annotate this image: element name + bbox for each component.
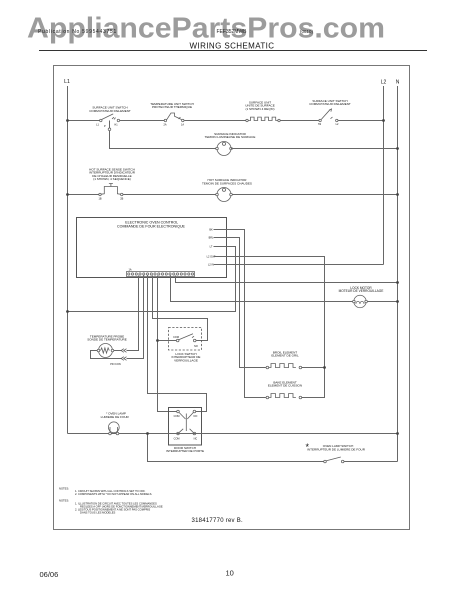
- svg-text:1A: 1A: [181, 124, 184, 127]
- svg-text:2B: 2B: [120, 198, 123, 201]
- svg-text:10: 10: [226, 569, 234, 578]
- svg-text:COMMUTATEUR D'ELEMENT: COMMUTATEUR D'ELEMENT: [309, 102, 351, 106]
- svg-text:COM: COM: [173, 336, 179, 339]
- svg-text:ELEMENT DE CUISSON: ELEMENT DE CUISSON: [268, 384, 302, 388]
- svg-text:PIN CON: PIN CON: [110, 363, 121, 366]
- svg-text:1A: 1A: [128, 269, 131, 272]
- svg-text:L1: L1: [64, 79, 70, 85]
- svg-text:LUMIERE DE FOUR: LUMIERE DE FOUR: [101, 415, 130, 419]
- svg-text:COM: COM: [174, 437, 180, 440]
- svg-text:COMMANDE DE FOUR ELECTRONIQUE: COMMANDE DE FOUR ELECTRONIQUE: [117, 225, 185, 229]
- svg-text:(1 SHOWN 4 REQ'D): (1 SHOWN 4 REQ'D): [245, 107, 274, 111]
- svg-text:DANS TOUS LES MODELES: DANS TOUS LES MODELES: [80, 511, 116, 515]
- svg-text:(0610): (0610): [300, 29, 314, 34]
- svg-text:TEMOIN DE SURFACES CHAUDES: TEMOIN DE SURFACES CHAUDES: [202, 181, 252, 185]
- svg-text:L2: L2: [381, 80, 387, 86]
- svg-text:COMMUTATEUR D'ELEMENT: COMMUTATEUR D'ELEMENT: [89, 109, 131, 113]
- svg-text:LT: LT: [210, 246, 213, 249]
- svg-text:L2 IN: L2 IN: [208, 264, 214, 267]
- svg-text:318417770 rev B.: 318417770 rev B.: [192, 518, 243, 524]
- svg-text:Publication No 5995443751: Publication No 5995443751: [38, 29, 117, 35]
- svg-text:SONDE DE TEMPERATURE: SONDE DE TEMPERATURE: [87, 338, 127, 342]
- svg-text:BRL: BRL: [209, 237, 214, 240]
- svg-text:BK: BK: [209, 229, 213, 232]
- svg-text:ELEMENT DE GRIL: ELEMENT DE GRIL: [271, 354, 299, 358]
- svg-text:MOTEUR DE VERROUILLAGE: MOTEUR DE VERROUILLAGE: [339, 289, 384, 293]
- svg-text:N: N: [396, 80, 400, 86]
- svg-text:NC: NC: [194, 437, 198, 440]
- svg-text:NOTES:: NOTES:: [59, 487, 69, 491]
- svg-text:INTERRUPTER DE PORTE: INTERRUPTER DE PORTE: [166, 449, 204, 453]
- svg-text:WIRING SCHEMATIC: WIRING SCHEMATIC: [190, 42, 275, 51]
- svg-text:PROTECTEUR THERMIQUE: PROTECTEUR THERMIQUE: [152, 105, 192, 109]
- svg-text:FEF352MWB: FEF352MWB: [217, 29, 248, 35]
- svg-text:VERROUILLAGE: VERROUILLAGE: [174, 358, 198, 362]
- svg-text:1B: 1B: [98, 198, 101, 201]
- svg-text:TEMOIN LUMINEUSE DE SURFACE: TEMOIN LUMINEUSE DE SURFACE: [205, 135, 256, 139]
- svg-text:2A: 2A: [163, 124, 166, 127]
- svg-text:2. COMPONENTS WITH * DO NOT A: 2. COMPONENTS WITH * DO NOT APPEAR ON AL…: [75, 492, 152, 496]
- svg-text:06/06: 06/06: [40, 570, 59, 579]
- svg-text:NO: NO: [194, 345, 198, 348]
- svg-text:NOTES:: NOTES:: [59, 498, 69, 502]
- svg-text:(1 SHOWN, 4 SEQUENCE): (1 SHOWN, 4 SEQUENCE): [93, 177, 131, 181]
- svg-text:COM: COM: [174, 415, 180, 418]
- svg-text:NO: NO: [194, 415, 198, 418]
- svg-text:INTERRUPTEUR DE LUMIERE DE FOU: INTERRUPTEUR DE LUMIERE DE FOUR: [307, 447, 366, 451]
